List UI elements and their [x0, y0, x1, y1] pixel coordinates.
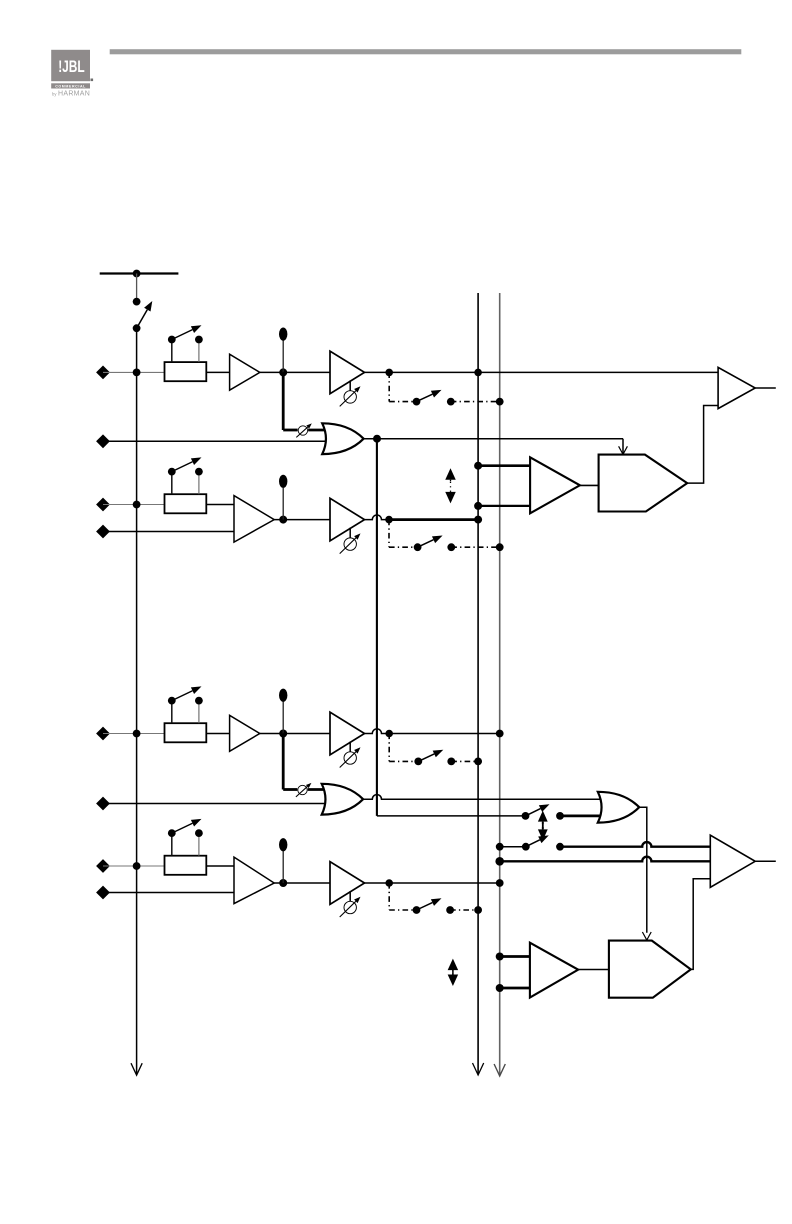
node CH4 post-gain	[385, 879, 393, 887]
wire CH1 mic input	[103, 371, 165, 373]
wire output A	[755, 387, 776, 389]
wire CH4 mic input	[103, 865, 165, 867]
node CH3 post-gain	[385, 730, 393, 738]
wire limiter A control	[622, 439, 624, 454]
output amp B	[710, 835, 755, 887]
wire CH2 gain out	[365, 515, 390, 520]
wire bus 2 to output amp B	[500, 857, 711, 862]
gain pot CH3	[349, 742, 351, 752]
JBL commercial bar	[51, 83, 90, 88]
pad attenuator CH4	[165, 856, 207, 875]
node master B in 2	[496, 984, 504, 992]
switch CH1 assign	[413, 398, 421, 406]
switch CH4 assign	[413, 906, 421, 914]
node CH2 bus junction	[133, 501, 141, 509]
wire CH1 junction to gain	[283, 371, 330, 373]
wire CH2 mic input	[103, 504, 165, 506]
wire summer B out	[639, 807, 647, 933]
node CH2 post-gain	[385, 516, 393, 524]
node CH1 on bus 1	[474, 369, 482, 377]
wire CH3 mic input	[103, 733, 165, 735]
node CH4 bus junction	[133, 862, 141, 870]
node master B in 1	[496, 953, 504, 961]
svg-text:HARMAN: HARMAN	[58, 91, 90, 98]
node CH1 bus junction	[133, 369, 141, 377]
input connector CH1 mic	[96, 366, 110, 380]
buffer amp CH1	[230, 354, 260, 390]
buffer amp CH3	[230, 715, 260, 751]
node CH1 post-gain	[385, 369, 393, 377]
node master A in 2	[474, 502, 482, 510]
input connector CH4 line	[96, 886, 110, 900]
wire CH3 junction to gain	[283, 733, 330, 735]
summing gate CH1	[322, 423, 363, 454]
wire CH1 assign to bus 2	[451, 401, 500, 403]
node phantom junction	[133, 270, 141, 278]
differential input amp CH2	[234, 496, 274, 542]
wire master B in 1	[500, 955, 530, 958]
left input bus	[136, 328, 138, 1074]
svg-text:COMMERCIAL: COMMERCIAL	[55, 85, 86, 89]
wire CH1 direct out	[365, 371, 719, 373]
wire phantom stem	[136, 274, 138, 302]
wire master A in 1	[478, 464, 530, 467]
wire CH3 sum out	[363, 795, 602, 800]
wire row2 to output amp B	[560, 842, 710, 847]
node CH2 post-amp	[279, 516, 287, 524]
switch CH2 assign	[414, 543, 422, 551]
input connector CH2 line	[96, 525, 110, 539]
test point CH1	[282, 340, 284, 372]
pad attenuator CH1	[165, 362, 207, 381]
bus assign arrow B	[452, 970, 454, 971]
switch crossover B row2	[522, 843, 530, 851]
switch CH3 assign	[414, 758, 422, 766]
wire CH1 sum out	[364, 438, 623, 440]
wire bus feed to switch B	[377, 815, 526, 817]
wire CH3 assign dash-dot	[388, 734, 390, 762]
pad bypass switch CH2	[171, 472, 173, 495]
node CH4 on bus 2	[496, 879, 504, 887]
node CH2 assign on bus 2	[496, 543, 504, 551]
JBL registered mark	[91, 79, 94, 82]
node CH3 post-buffer	[279, 730, 287, 738]
input connector CH4 mic	[96, 859, 110, 873]
node master A in 1	[474, 462, 482, 470]
master amp B	[530, 943, 578, 998]
node CH2 on bus 1	[474, 516, 482, 524]
input connector CH3 mic	[96, 727, 110, 741]
limiter block A	[599, 455, 688, 512]
mix bus 2	[499, 293, 501, 1075]
node CH1 post-buffer	[279, 368, 287, 376]
summing gate B	[598, 792, 639, 823]
limiter block B	[609, 941, 691, 998]
wire CH3 to bus 2	[365, 729, 500, 734]
gain amp CH2	[330, 498, 365, 541]
master amp A	[530, 457, 580, 513]
bus assign arrow A	[450, 480, 452, 482]
pad bypass switch CH1	[171, 340, 173, 363]
gain pot CH1	[349, 380, 351, 390]
wire CH3 pad to buffer	[206, 733, 229, 735]
test point CH3	[282, 702, 284, 734]
gain amp CH1	[330, 351, 365, 394]
phantom power rail	[100, 272, 179, 274]
node CH4 post-amp	[279, 879, 287, 887]
gain amp CH3	[330, 712, 365, 755]
wire CH2 assign to bus 2	[451, 546, 499, 548]
level pot CH1	[298, 426, 307, 435]
page top rule	[110, 49, 742, 54]
wire CH3 line input	[103, 803, 327, 805]
phantom switch	[133, 298, 141, 306]
input connector CH3 line	[96, 797, 110, 811]
gain amp CH4	[330, 862, 365, 905]
test point CH4	[282, 851, 284, 883]
test point CH2	[282, 488, 284, 520]
input connector CH2 mic	[96, 498, 110, 512]
wire limiter A out	[687, 406, 718, 484]
wire CH3 buffer out	[260, 733, 283, 735]
node CH3 on bus 2	[496, 730, 504, 738]
svg-text:by: by	[52, 91, 57, 96]
wire bus feed down	[376, 439, 378, 816]
svg-text:!JBL: !JBL	[58, 58, 84, 76]
wire CH3 assign to bus 1	[451, 760, 478, 762]
wire CH2 amp out	[274, 519, 330, 521]
wire CH1 aux drop	[282, 372, 285, 430]
wire CH4 amp out	[274, 882, 330, 884]
JBL logo box	[51, 50, 90, 81]
wire CH2 pad to amp	[206, 504, 234, 506]
wire CH2 line input	[103, 531, 234, 533]
input connector CH1 line	[96, 434, 110, 448]
wire switch to summer B	[560, 815, 603, 818]
wire CH1 pad to buffer	[206, 371, 229, 373]
node CH3 assign on bus 1	[474, 758, 482, 766]
output amp A	[718, 367, 755, 408]
wire CH1 buffer out	[260, 371, 283, 373]
wire master amp A to limiter	[580, 484, 599, 486]
node crossover bus 2	[496, 843, 504, 851]
pad attenuator CH3	[165, 723, 207, 742]
wire CH3 aux drop	[282, 734, 285, 790]
wire CH2 to bus 1	[389, 518, 478, 521]
summing gate CH3	[322, 784, 363, 815]
wire CH4 assign to bus 1	[450, 909, 478, 911]
wire master B in 2	[500, 987, 530, 990]
mix bus 1	[477, 293, 479, 1074]
gain pot CH4	[349, 891, 351, 901]
wire crossover row2	[500, 846, 526, 848]
node CH4 assign on bus 1	[474, 906, 482, 914]
gain pot CH2	[349, 528, 351, 538]
pad attenuator CH2	[165, 494, 207, 513]
switch crossover B row1	[522, 812, 530, 820]
wire CH4 assign dash-dot	[388, 883, 390, 910]
pad bypass switch CH4	[171, 833, 173, 856]
wire master amp B to limiter	[578, 969, 609, 971]
wire CH4 pad to amp	[206, 865, 234, 867]
wire CH4 line input	[103, 892, 234, 894]
wire output B	[755, 860, 776, 862]
node CH1 sum out	[373, 435, 381, 443]
node bus 2 to output amp B	[495, 857, 504, 866]
crossover swap arrow	[542, 822, 544, 824]
level pot CH3	[298, 785, 307, 794]
differential input amp CH4	[234, 857, 274, 904]
wire limiter B out	[691, 879, 711, 970]
wire CH4 to bus 2	[365, 882, 500, 884]
wire CH2 assign dash-dot	[388, 520, 390, 548]
wire CH1 assign dash-dot	[388, 372, 390, 401]
node CH3 bus junction	[133, 730, 141, 738]
pad bypass switch CH3	[171, 701, 173, 724]
wire CH1 line input	[103, 440, 328, 442]
wire master A in 2	[478, 505, 530, 507]
node CH1 assign on bus 2	[496, 398, 504, 406]
